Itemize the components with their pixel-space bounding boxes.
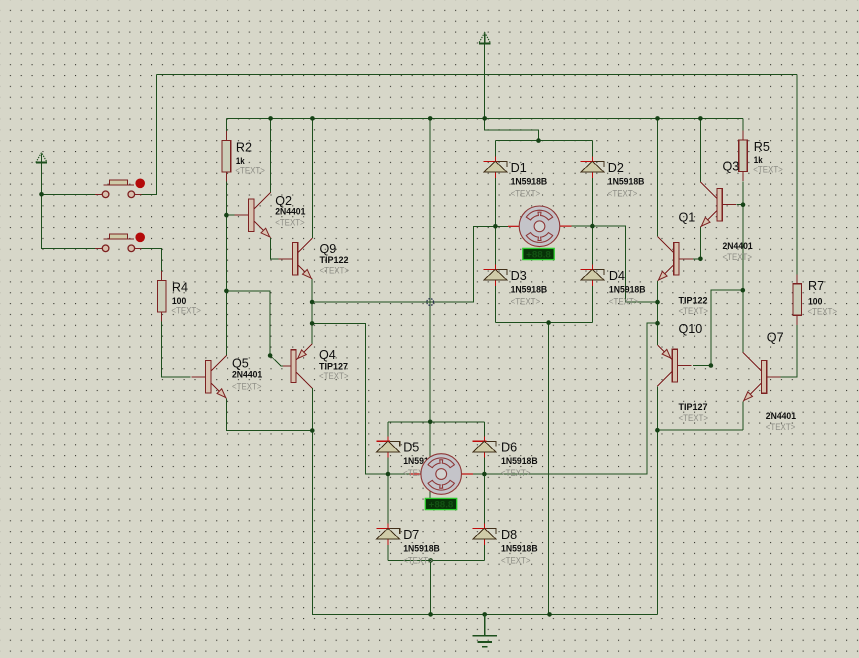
schottky diode D5 — [376, 436, 399, 457]
svg-text:D6: D6 — [501, 441, 517, 455]
wire left output to bottom motor left — [312, 323, 388, 474]
svg-text:<TEXT>: <TEXT> — [275, 218, 305, 228]
svg-text:<TEXT>: <TEXT> — [171, 305, 201, 315]
wire R4 bottom to Q5 base — [162, 322, 191, 377]
resistor R5 body — [739, 130, 748, 181]
svg-text:<TEXT>: <TEXT> — [232, 381, 262, 391]
wire top motor left pin — [495, 225, 508, 227]
junction dot left bottom node — [310, 428, 315, 433]
svg-text:D4: D4 — [609, 269, 625, 283]
svg-text:1N5918B: 1N5918B — [403, 543, 440, 553]
svg-text:TIP122: TIP122 — [320, 255, 349, 265]
resistor R2 body — [222, 131, 231, 182]
junction dot Q3 base — [741, 202, 746, 207]
push button SW1 — [95, 179, 145, 198]
wire Q2 base tap — [226, 214, 234, 216]
transistor Q10 — [657, 345, 691, 386]
junction dot Q4 base node — [268, 353, 273, 358]
push button SW2 — [95, 233, 145, 252]
svg-text:1k: 1k — [754, 155, 764, 165]
wire R2 bottom to Q5 collector, taps Q2 base — [225, 181, 227, 355]
wire arrow to SW1/SW2 left terminals — [42, 164, 96, 249]
junction dot right bottom node — [655, 428, 660, 433]
wire junction to Q10 base jog — [693, 290, 743, 365]
svg-text:<TEXT>: <TEXT> — [319, 371, 349, 381]
schottky diode D3 — [484, 264, 507, 285]
left power arrow symbol — [36, 153, 47, 163]
svg-text:1N5918B: 1N5918B — [511, 176, 548, 186]
svg-text:1N5918B: 1N5918B — [501, 456, 538, 466]
svg-text:R7: R7 — [808, 279, 824, 293]
schottky diode D1 — [484, 156, 507, 177]
svg-text:<TEXT>: <TEXT> — [679, 413, 709, 423]
junction dot top bridge bottom — [546, 320, 551, 325]
svg-text:<TEXT>: <TEXT> — [320, 266, 350, 276]
junction dot bottom motor left — [386, 472, 391, 477]
junction dot R2 bottom node — [224, 289, 229, 294]
junction dot bottom bridge bottom — [428, 558, 433, 563]
wire +V rail down to R2 — [225, 118, 227, 131]
junction dot top bridge feed — [536, 138, 541, 143]
svg-text:2N4401: 2N4401 — [232, 370, 262, 380]
wire top bridge left vertical — [494, 141, 496, 323]
svg-text:R2: R2 — [236, 141, 252, 155]
wire Q4 base diagonal — [270, 356, 283, 367]
wire top motor right pin — [559, 225, 571, 227]
junction dots ground rail — [428, 612, 433, 617]
svg-text:2N4401: 2N4401 — [766, 411, 796, 421]
wire SW1 left terminal — [42, 193, 96, 195]
junction dot bottom motor right — [482, 472, 487, 477]
junction dot Q2 base — [224, 213, 229, 218]
wire Q2 collector to +V rail — [270, 118, 272, 192]
svg-text:<TEXT>: <TEXT> — [501, 555, 531, 565]
wire supply step to top bridge — [485, 118, 539, 140]
svg-text:D8: D8 — [501, 528, 517, 542]
svg-text:Q9: Q9 — [320, 242, 337, 256]
svg-text:Q4: Q4 — [319, 348, 336, 362]
wire Q5 emitter down to bottom node — [227, 398, 313, 430]
svg-text:TIP127: TIP127 — [679, 402, 708, 412]
wire Q5 collector vertical — [225, 291, 227, 356]
wire right output node vertical — [657, 281, 659, 345]
wire top motor right to right output node — [592, 226, 657, 302]
junction dot top motor right — [590, 224, 595, 229]
wire top bridge bottom rail — [495, 322, 592, 324]
wire Q9 collector to +V rail — [311, 118, 313, 238]
svg-text:1N5918B: 1N5918B — [511, 284, 548, 294]
svg-text:2N4401: 2N4401 — [275, 207, 305, 217]
svg-text:1N5918B: 1N5918B — [501, 543, 538, 553]
svg-text:<TEXT>: <TEXT> — [766, 422, 796, 432]
wire right bottom node to ground rail — [656, 430, 658, 614]
junction dot left output top — [310, 300, 315, 305]
svg-text:<TEXT>: <TEXT> — [679, 306, 709, 316]
transistor Q3 — [700, 182, 736, 227]
wire Q3 base to R5 line — [737, 204, 744, 206]
wire +V rail down to R5 — [742, 118, 744, 130]
wire SW2 right to R4 top — [142, 248, 162, 271]
transistor Q9 — [279, 238, 313, 279]
wire long vertical +V to bottom bridge — [429, 118, 431, 505]
svg-text:<TEXT>: <TEXT> — [808, 307, 838, 317]
junction dot bottom bridge feed — [428, 420, 433, 425]
svg-text:1k: 1k — [236, 156, 246, 166]
no-connect crossing marker — [427, 299, 434, 306]
svg-text:<TEXT>: <TEXT> — [608, 188, 638, 198]
power supply vertical into +V rail — [484, 44, 486, 119]
svg-text:+88.8: +88.8 — [429, 500, 454, 511]
wire top bridge bottom to ground rail — [548, 323, 550, 615]
wire top bridge right vertical — [591, 141, 593, 323]
wire bottom bridge left vertical — [387, 422, 389, 561]
svg-text:Q1: Q1 — [679, 211, 696, 225]
svg-text:<TEXT>: <TEXT> — [235, 165, 265, 175]
resistor R4 body — [157, 271, 166, 322]
wire bottom bridge bottom to ground rail — [430, 560, 432, 614]
wire top bridge top rail — [495, 140, 592, 142]
wire bottom node to ground rail — [312, 431, 657, 615]
svg-text:R4: R4 — [172, 281, 188, 295]
schottky diode D6 — [473, 436, 496, 457]
wire Q7 collector up to junction — [742, 290, 744, 352]
svg-text:<TEXT>: <TEXT> — [403, 555, 433, 565]
svg-text:TIP122: TIP122 — [679, 296, 708, 306]
svg-text:+88.8: +88.8 — [526, 250, 551, 261]
svg-text:<TEXT>: <TEXT> — [511, 296, 540, 306]
motor M1 display — [523, 248, 554, 259]
motor M1 — [519, 206, 560, 247]
svg-text:<TEXT>: <TEXT> — [501, 468, 531, 478]
transistor Q7 — [743, 352, 781, 401]
wire Q3 emitter down to Q1 base — [693, 227, 700, 259]
junction dot R5 bottom node — [741, 288, 746, 293]
motor M2 — [421, 454, 462, 495]
junction dot SW terminals — [39, 192, 44, 197]
wire right vertical from top rail down to R7 — [796, 74, 798, 274]
transistor Q2 — [235, 192, 271, 237]
transistor Q4 — [283, 344, 312, 388]
schottky diode D2 — [581, 156, 604, 177]
wire right output to bottom motor right jog — [484, 323, 657, 474]
svg-text:R5: R5 — [754, 140, 770, 154]
transistor Q1 — [658, 237, 694, 281]
svg-text:D5: D5 — [403, 441, 419, 455]
junction dot right output bottom — [655, 321, 660, 326]
wire SW1 right terminal up to top rail — [142, 74, 157, 194]
wire Q3 collector to +V rail — [699, 118, 701, 182]
svg-text:Q10: Q10 — [679, 322, 703, 336]
svg-text:Q5: Q5 — [232, 357, 249, 371]
svg-text:<TEXT>: <TEXT> — [723, 252, 753, 262]
wire R7 bottom to Q7 base — [778, 324, 798, 377]
junction dot left output bottom — [310, 321, 315, 326]
wire bottom bridge bottom rail — [388, 559, 484, 561]
junction dots on +V rail — [268, 116, 273, 121]
wire Q7 emitter vertical — [742, 401, 744, 430]
motor M2 display — [425, 498, 456, 509]
wire junction to Q4 base jog — [226, 291, 270, 356]
junction dot top motor left — [493, 224, 498, 229]
svg-text:D7: D7 — [403, 528, 419, 542]
junction dot Q1 base — [698, 257, 703, 262]
svg-text:D1: D1 — [511, 161, 527, 175]
transistor Q5 — [192, 355, 227, 398]
wire Q1 collector to +V rail — [657, 118, 659, 236]
wire left output node vertical — [311, 279, 313, 344]
schottky diode D4 — [581, 264, 604, 285]
ground symbol — [472, 614, 497, 646]
junction dot right output top — [655, 300, 660, 305]
svg-text:100: 100 — [172, 296, 186, 306]
wire bottom bridge top rail — [388, 421, 484, 423]
wire +V rail — [226, 117, 743, 119]
svg-text:<TEXT>: <TEXT> — [753, 165, 783, 175]
svg-text:2N4401: 2N4401 — [723, 241, 753, 251]
wire R5 bottom line down to junction — [742, 182, 744, 291]
schottky diode D7 — [376, 523, 399, 544]
wire top rail from SW1 to R7 — [157, 73, 798, 75]
wire bottom motor left pin — [388, 473, 410, 475]
svg-text:D3: D3 — [511, 269, 527, 283]
wire bottom motor right pin — [461, 473, 473, 475]
svg-text:<TEXT>: <TEXT> — [511, 188, 540, 198]
power arrow symbol — [479, 33, 491, 44]
wire Q10 collector down to right bottom node — [656, 386, 658, 430]
wire right bottom node to Q7 emitter — [657, 429, 743, 431]
svg-text:<TEXT>: <TEXT> — [609, 296, 639, 306]
wire Q4 collector down to bottom node — [311, 388, 313, 430]
wire bottom bridge right vertical — [483, 422, 485, 561]
svg-text:100: 100 — [808, 297, 822, 307]
resistor R7 body — [793, 274, 802, 325]
schottky diode D8 — [473, 523, 496, 544]
svg-text:D2: D2 — [608, 161, 624, 175]
wire Q2 emitter down to Q9 base — [271, 238, 279, 259]
svg-text:1N5918B: 1N5918B — [609, 284, 646, 294]
junction dot Q10 base — [709, 363, 714, 368]
svg-text:Q3: Q3 — [723, 160, 740, 174]
svg-text:Q7: Q7 — [767, 331, 784, 345]
wire left output to top motor left — [312, 226, 495, 302]
svg-text:1N5918B: 1N5918B — [608, 176, 645, 186]
